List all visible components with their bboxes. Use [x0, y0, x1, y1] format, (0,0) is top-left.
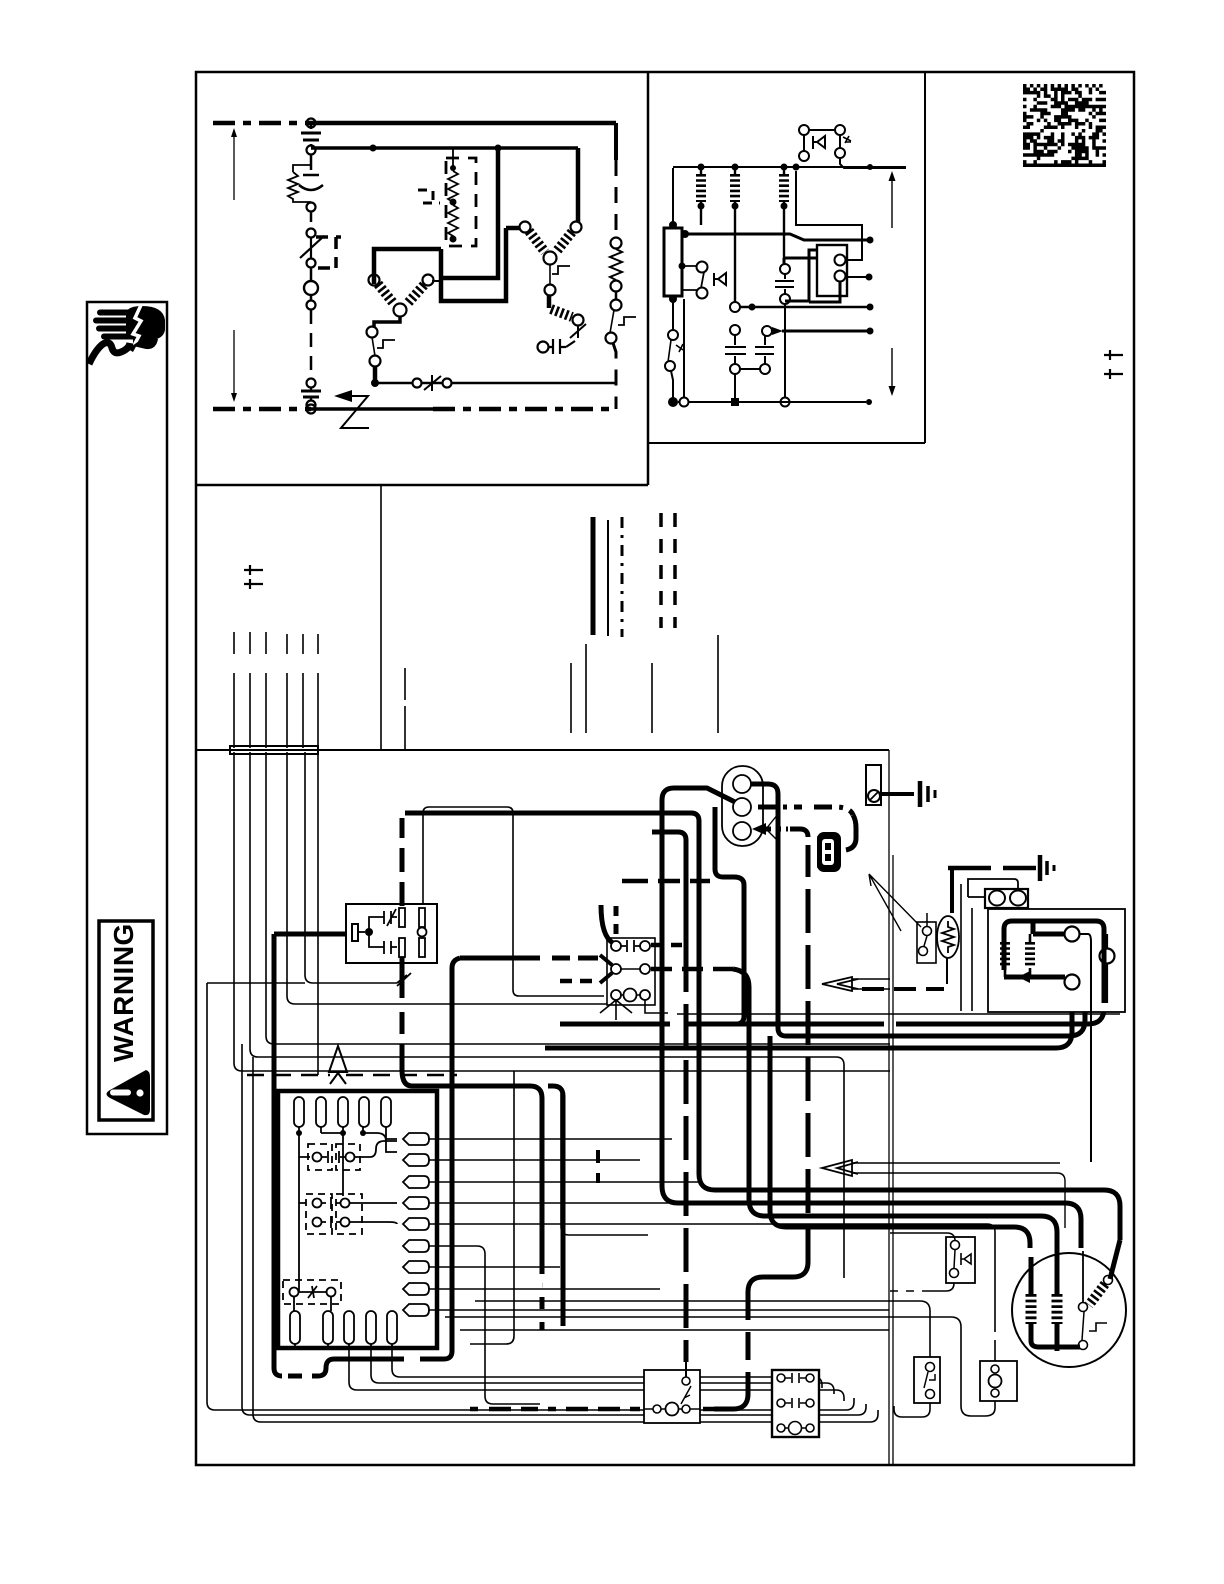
leader stub D [651, 663, 653, 733]
T1 secondary circle [418, 928, 427, 937]
tstat wire W4 [287, 752, 648, 1004]
mid return x514 [470, 1071, 514, 1344]
defrost control board [988, 909, 1125, 1012]
star flag [843, 136, 851, 143]
hand icon shock cable [89, 343, 130, 364]
long thin y1317 feeds plug [445, 1317, 995, 1416]
thin sec wire from T1 top [423, 807, 604, 996]
dash-dot leader H [621, 517, 624, 637]
terminal wire y1139 [429, 1138, 672, 1140]
mid terminal row y307 [730, 302, 740, 312]
left return wire B [242, 1044, 866, 1415]
RY row2 dash in left [560, 979, 598, 984]
quick connect QC2 dashed [306, 1194, 332, 1234]
dashed leader J [673, 513, 677, 628]
thin y1014 run [677, 1013, 1120, 1015]
dashdot stub y989 [862, 987, 944, 991]
thick leader F [591, 517, 596, 635]
relay K thick leads [784, 258, 817, 264]
bold dash under feed [288, 1374, 318, 1379]
24V bus top [673, 166, 906, 168]
G2 corner down [950, 870, 954, 913]
hand icon wrist [133, 338, 158, 349]
spade terminals column [403, 1133, 429, 1316]
bold compressor mid dashdot [758, 807, 853, 815]
compressor arrowhead [752, 823, 766, 835]
warning strip outer rect [87, 302, 167, 1134]
bleed resistor R-B [448, 202, 458, 238]
left return wire A [207, 983, 854, 1410]
dashed jog 2 [418, 190, 440, 203]
terminal wire y1286 [429, 1288, 660, 1290]
M1 feeder right [576, 148, 581, 222]
M2 switch bottom circle [370, 356, 381, 367]
bold line-voltage dash into T1 [400, 818, 405, 906]
M1 run cap [538, 342, 549, 353]
motor start winding diag [1104, 1276, 1113, 1285]
terminal wire y1182 [429, 1181, 700, 1183]
terminal wire y1160 [429, 1159, 640, 1161]
bold hook to board loop [318, 1359, 334, 1376]
thick loop to winding [441, 228, 506, 301]
bleed resistor R-A [448, 148, 458, 202]
main area top border [196, 749, 889, 751]
bold L1 run top [405, 813, 699, 821]
T1 plug blade [352, 924, 358, 941]
warning triangle icon [107, 1070, 151, 1115]
bold dash-dot circuit to heat box [806, 845, 811, 1262]
bold run to defrost right [786, 1012, 1085, 1036]
motor winding 1 [1029, 1257, 1034, 1294]
pressure switch top chain [799, 125, 809, 135]
dashed jog from L1 chain [316, 237, 341, 268]
tstat wire W5 [305, 752, 397, 983]
top-left box divider [196, 72, 648, 485]
coil L3 [783, 167, 785, 264]
RY dash feed top [614, 906, 619, 934]
relay RL2 plug [985, 889, 1028, 908]
dim arrow right top [891, 176, 893, 228]
bold bundle b1 [699, 1174, 1120, 1240]
compressor terminal R [733, 822, 751, 840]
compressor terminal S [733, 798, 751, 816]
svg-text:WARNING: WARNING [108, 923, 139, 1062]
terminal circle [307, 379, 316, 388]
terminal circle [307, 229, 316, 238]
DFC bottom bar [1004, 975, 1065, 980]
fuse plates bottom [301, 391, 321, 397]
dash-dot feed from line y881 [622, 879, 710, 884]
DFC coil1 [1000, 942, 1010, 968]
slash on lead below T1 [397, 973, 411, 986]
long thin y1330 [460, 1329, 889, 1331]
thermostat wires into box [234, 673, 318, 748]
leader stub C [585, 644, 587, 733]
terminal circle [307, 301, 316, 310]
board loop right vertical [452, 958, 460, 1351]
RY row2 fork [611, 964, 621, 974]
dash-dot feed left of HB [470, 1407, 640, 1412]
control board outline [278, 1091, 437, 1348]
bold arrow feed into compressor [790, 829, 808, 837]
terminal wire y1202 [429, 1202, 760, 1204]
warning label box [99, 921, 153, 1120]
staircase wire S2 [371, 1348, 834, 1394]
right branch of TL box [606, 123, 637, 409]
terminal wire y1224 [429, 1224, 995, 1232]
DFC circle2 [1065, 975, 1080, 990]
bold drop left of heat box [540, 1098, 545, 1330]
terminal wire y1245 [429, 1246, 540, 1404]
thermostat wire stubs [234, 632, 318, 654]
terminal board TB [772, 1370, 819, 1437]
M2 drop to bus [373, 366, 378, 383]
leader stub B [570, 663, 572, 733]
wire stubs above main box [234, 632, 318, 748]
ground G2 [1038, 855, 1043, 881]
DFC inner loop [1004, 921, 1104, 1003]
RY row1 dash out [651, 943, 682, 948]
R branch resistor [610, 249, 622, 280]
thick feed to transformer [274, 932, 351, 937]
molex connector [817, 832, 841, 872]
disconnect lug box [866, 765, 881, 805]
ground G1 [918, 781, 923, 807]
label area divider [380, 485, 382, 750]
block lower switch [672, 302, 674, 330]
RY row1 contact [611, 941, 621, 951]
bold x715 link [715, 807, 744, 1024]
limit link dashed box [283, 1280, 341, 1304]
bold stub right of HB [703, 1407, 714, 1412]
tstat wire W2 [250, 752, 844, 1278]
leader G [607, 520, 609, 636]
RY row3 tails [600, 1000, 668, 1020]
tstat wire W6 [317, 752, 319, 1075]
leader stub A [404, 668, 406, 750]
bold bundle b4 [770, 1036, 1030, 1248]
dashed resistor box [446, 158, 476, 246]
DFC circle3 [1100, 949, 1115, 964]
M2 switch blade [372, 337, 375, 356]
thermostat connector bar [230, 746, 318, 754]
long thin y1301 feeds lpsw [475, 1301, 930, 1334]
cap C2 column [780, 264, 790, 274]
bold below T1 [400, 957, 405, 1062]
M1 variable slash [570, 324, 586, 338]
L1 bus solid top [311, 121, 616, 126]
hollow arrow mid [822, 977, 858, 991]
bottom common bus [678, 401, 866, 403]
molex dashed shell [817, 836, 819, 868]
dagger marks left [244, 565, 263, 589]
bold dash stub x598 [596, 1150, 600, 1183]
main area right divider [889, 750, 893, 1465]
bold heat feed dash drop [684, 1004, 689, 1362]
bold compressor top feed [751, 784, 786, 1036]
relay RY contacts box [607, 938, 655, 1005]
R branch step [618, 317, 636, 325]
M1 protector step [552, 266, 570, 274]
thin drop pair below RL2 [961, 884, 972, 1011]
left terminal block [672, 168, 674, 223]
fan motor circle [1012, 1253, 1126, 1367]
terminal circle [307, 401, 316, 410]
RY row3 [611, 990, 621, 1000]
L2 bus bottom solid [311, 407, 433, 411]
R-wire switch slash [397, 972, 407, 990]
outer frame [196, 72, 1134, 1465]
bold L1 drop long [697, 821, 702, 1174]
variable slash element [300, 236, 324, 258]
motor bottom bar [1039, 1345, 1080, 1350]
lug bold wire [881, 792, 914, 796]
leader stub E [717, 635, 719, 733]
motor M2 (left Y) [367, 275, 434, 388]
M1 winding right [556, 232, 572, 252]
L2 bus bottom dash-dot [213, 407, 616, 412]
M1 start winding diag [551, 309, 572, 317]
overload resistor [288, 165, 311, 202]
compressor terminal C [733, 775, 751, 793]
DFC coil2 [1025, 942, 1035, 968]
switch box SW2 [914, 1357, 940, 1403]
dagger marks right [1104, 350, 1123, 379]
mid wire x561 [561, 1094, 648, 1235]
board wiring verticals [299, 1127, 397, 1291]
board loop bottom [334, 1351, 452, 1359]
compressor capsule [722, 766, 763, 846]
fuse pill row top [294, 1097, 304, 1127]
horizontal feeder y148 [311, 146, 578, 150]
M2 winding right [407, 285, 424, 304]
terminal circle [307, 259, 316, 268]
coil L1 [700, 167, 702, 225]
terminal circle [307, 203, 316, 212]
dimension arrow bottom [231, 330, 237, 402]
S1 slash [424, 375, 441, 391]
defrost switch box [917, 922, 936, 963]
dim arrow right bottom [891, 348, 893, 390]
dimension arrow top [231, 128, 237, 200]
bold mid run y1024 [560, 1007, 1104, 1024]
overload arc element [299, 175, 323, 190]
heat relay box HB [644, 1370, 700, 1423]
bus switch S1 [375, 375, 616, 391]
bold heat feed y832 [652, 832, 686, 992]
quick connect QC1 dashed [308, 1144, 332, 1170]
hand icon palm [93, 306, 165, 349]
M1 winding left [529, 231, 545, 252]
bold bundle b3 [733, 969, 1057, 1248]
thick feed to R terminal [685, 234, 868, 240]
terminal wire y1266 [429, 1266, 560, 1268]
dashed leader I [659, 513, 663, 628]
bold branch drop x563 [548, 1086, 563, 1326]
bold run y1048 to defrost [545, 989, 1072, 1048]
oval resistor [942, 921, 954, 953]
bold bundle b2 [662, 1186, 1081, 1248]
hollow arrow up [329, 1046, 347, 1084]
hand icon fingers [97, 310, 137, 316]
cap C3 column [755, 336, 774, 364]
transformer T1 box [346, 904, 437, 963]
M2 switch step [377, 340, 395, 348]
board junction dots [296, 1130, 302, 1136]
buzzer switch [697, 262, 708, 273]
SW2 leads [894, 1334, 930, 1417]
callout leaders [869, 874, 921, 931]
RL2 feeds [968, 879, 1018, 897]
PS1 bottom lead dashed [890, 1283, 954, 1291]
cap C1 column [730, 325, 740, 335]
R branch switch blade [610, 310, 614, 333]
bold run above board [412, 1086, 542, 1098]
PS1 top lead [890, 1233, 955, 1241]
top-right box divider [648, 72, 925, 443]
hollow arrow low [822, 1160, 858, 1176]
compressor fork leaders [766, 814, 780, 843]
PL top lead [994, 1232, 996, 1361]
dashed tstat leader y1075 [247, 1074, 457, 1077]
tstat wire W1 [234, 752, 890, 1071]
staircase wire S1 [349, 1348, 844, 1401]
feeder from left motor top [374, 249, 441, 284]
dashed drop to bottom [310, 310, 313, 378]
relay K box [817, 245, 847, 296]
bold elbow to board-left run [402, 1062, 412, 1086]
M2 winding left [378, 284, 394, 304]
stub to M1 left terminal [506, 226, 520, 231]
arrow terminal y331 [762, 326, 772, 336]
RY row2 dash out [651, 967, 733, 972]
M2 tail to switch [374, 317, 400, 327]
M2 switch top circle [367, 327, 378, 338]
bold L2 compressor feed [662, 788, 735, 1186]
bold link to relay fork [460, 956, 598, 961]
ground G2 wire dashed [948, 866, 1036, 871]
pressure switch PS1 [946, 1237, 975, 1283]
RY feed hook top [601, 905, 613, 943]
flag-Z break symbol [334, 390, 369, 428]
plug box PL [980, 1361, 1017, 1401]
left return wire C [253, 1057, 878, 1422]
thick 24V feed vertical [274, 934, 282, 1376]
motor switch [1082, 1251, 1084, 1302]
large circle [304, 281, 318, 295]
tstat wire W3 [266, 752, 890, 1044]
M1 lower circle [545, 285, 556, 296]
T1 secondary bars [419, 908, 425, 927]
horn symbol [813, 136, 825, 149]
bold diag to motor [1110, 1240, 1120, 1279]
coil L2 [734, 167, 736, 302]
hand icon lightning bolt [132, 305, 141, 349]
T1 primary caps [369, 909, 397, 932]
L1 bus dash-dot top [213, 121, 311, 126]
fuse pill row bottom [290, 1311, 300, 1344]
defrost thermostat oval [937, 916, 959, 958]
staircase wire S3 [392, 1348, 822, 1388]
M1 thick drop [547, 295, 552, 308]
oval bottom lead [946, 958, 948, 984]
DFC circle1 tail [1080, 934, 1091, 1162]
terminal circle [307, 146, 316, 155]
motor M1 (right Y) [520, 148, 587, 354]
thick loop down from y148 [441, 148, 498, 278]
T1 primary bars [399, 908, 405, 927]
junction dot on y148 [495, 145, 502, 152]
terminal wire y1307 [429, 1309, 889, 1311]
left motor right-terminal link [432, 280, 441, 282]
motor winding 2 [1055, 1248, 1060, 1294]
R branch vertical top [614, 123, 618, 160]
DFC bar arrow [1018, 971, 1030, 983]
DFC circle1 [1065, 927, 1080, 942]
fuse plates top [301, 133, 321, 140]
